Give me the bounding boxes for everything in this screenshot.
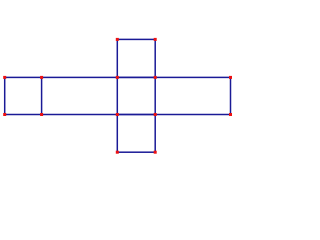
main row rectangle [5,77,231,114]
vertex row top x2 [116,76,119,79]
bottom flap square [117,115,155,153]
vertex row bottom right [229,113,232,116]
box net diagram [0,0,245,200]
vertex top-square TL [116,38,119,41]
vertex row top right [229,76,232,79]
vertex row bottom x2 [116,113,119,116]
wire divider v2 [116,77,118,114]
vertex bottom-square BR [154,151,157,154]
vertex row top x3 [154,76,157,79]
vertex row top left [3,76,6,79]
vertex bottom-square BL [116,151,119,154]
vertex top-square TR [154,38,157,41]
wire divider v3 [154,77,156,114]
vertex row bottom left [3,113,6,116]
vertex row bottom x3 [154,113,157,116]
top flap square [117,39,155,77]
vertex row top x1 [40,76,43,79]
wire divider v1 [41,77,43,114]
vertex row bottom x1 [40,113,43,116]
